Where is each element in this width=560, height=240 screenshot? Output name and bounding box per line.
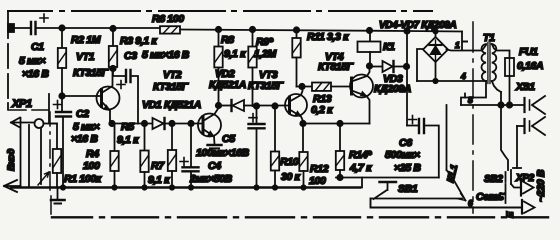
svg-text:5 мк×: 5 мк× [73, 121, 99, 133]
relay contact K1.1 [447, 170, 466, 201]
resistor third emitter row [168, 121, 176, 188]
winding 5 tap [461, 81, 486, 105]
resistor R6 [160, 26, 180, 33]
svg-text:9,1 к: 9,1 к [117, 134, 139, 146]
pin1 tick [463, 41, 468, 43]
node rail R11 [294, 27, 299, 32]
svg-text:КД521А: КД521А [209, 79, 246, 91]
transformer T1 [481, 43, 496, 84]
wire pin4 [417, 80, 486, 82]
diode VD2 [219, 100, 253, 111]
wire emitter row [110, 123, 203, 125]
svg-text:XS1: XS1 [515, 81, 535, 93]
svg-text:4,7 к: 4,7 к [349, 162, 372, 174]
node VT1 base [59, 93, 64, 98]
svg-text:100: 100 [309, 175, 326, 187]
primary top lead [492, 44, 510, 58]
bottom dash-dot border [52, 216, 548, 218]
svg-text:VT1: VT1 [76, 51, 95, 63]
svg-text:R8: R8 [221, 34, 234, 46]
wire top rail [36, 28, 463, 32]
ground under R1 [57, 188, 59, 200]
svg-text:R4: R4 [86, 148, 99, 160]
svg-text:R5: R5 [121, 121, 134, 133]
bridge rectifier VD4-VD7 [417, 29, 448, 81]
svg-text:100мк×16В: 100мк×16В [196, 147, 250, 159]
diode VD1 [153, 118, 165, 129]
svg-text:2мк×50В: 2мк×50В [189, 173, 233, 185]
svg-text:~220 В: ~220 В [535, 169, 547, 202]
svg-text:С4: С4 [208, 160, 221, 172]
svg-text:SB1: SB1 [398, 183, 418, 195]
svg-text:SB2: SB2 [484, 174, 503, 185]
svg-text:R12: R12 [310, 163, 329, 175]
svg-text:5 мк×: 5 мк× [19, 55, 45, 67]
socket XS1 upper [525, 96, 546, 114]
svg-text:9,1 к: 9,1 к [148, 174, 170, 186]
transistor VT2 [198, 106, 221, 145]
fuse FU1 [505, 58, 514, 105]
relay K1 [358, 28, 381, 66]
svg-text:9,1 к: 9,1 к [224, 48, 246, 60]
node rail R2 [59, 25, 64, 30]
diode VD3 [367, 61, 409, 72]
earth lead [505, 184, 507, 203]
node emitter R5 [109, 121, 114, 126]
svg-text:5: 5 [468, 95, 473, 105]
top border dash line [8, 10, 432, 12]
svg-text:С5: С5 [222, 133, 235, 145]
input shield vertical dash [50, 112, 51, 214]
svg-text:Вход: Вход [6, 148, 17, 171]
wire pin1 riser [447, 32, 487, 51]
svg-text:100: 100 [83, 160, 100, 172]
wire C6 return line [336, 177, 439, 179]
capacitor C3 [113, 69, 138, 124]
svg-text:R1 100к: R1 100к [64, 173, 102, 185]
input shield bottom dash [8, 109, 48, 111]
connector XP1 [4, 118, 57, 193]
switch SB2 [492, 81, 520, 188]
resistor R12 [299, 124, 307, 188]
transistor VT1 [97, 69, 120, 124]
svg-text:С3: С3 [124, 50, 137, 62]
svg-text:К1: К1 [383, 41, 395, 53]
svg-text:1: 1 [455, 40, 460, 50]
capacitor C6 [407, 116, 439, 178]
resistor R3 [109, 29, 117, 68]
svg-text:0,2 к: 0,2 к [311, 104, 333, 116]
right enclosure dash-dot wall [472, 22, 474, 213]
svg-text:R3 9,1 к: R3 9,1 к [120, 35, 157, 47]
resistor R13 [297, 83, 352, 92]
transistor VT4 [350, 66, 373, 124]
svg-text:FU1: FU1 [519, 46, 538, 58]
wire bottom rail [11, 186, 360, 188]
svg-text:Т1: Т1 [483, 32, 495, 44]
resistor R1 variable [38, 94, 61, 188]
capacitor C2 [54, 96, 72, 188]
resistor R8 [214, 30, 222, 106]
wire emitter VT3 VT4 row [303, 123, 370, 125]
svg-text:R10: R10 [280, 156, 299, 168]
node rail R3 [110, 26, 115, 31]
socket XS1 lower [513, 117, 545, 168]
rail junction dots [61, 185, 65, 189]
svg-text:×16 В: ×16 В [22, 68, 49, 80]
ground VT2 emitter [208, 144, 222, 146]
transistor VT3 [285, 87, 307, 124]
svg-text:~: ~ [499, 189, 505, 200]
wire x407 column [406, 31, 408, 126]
wire rail join [360, 178, 362, 188]
plug XP2 upper [521, 179, 534, 196]
resistor R14 [336, 121, 344, 180]
svg-text:КТ815Г: КТ815Г [318, 61, 354, 73]
capacitor C4 [180, 121, 199, 188]
svg-text:ХР1: ХР1 [11, 98, 32, 110]
capacitor C5 [249, 103, 265, 187]
node R3 C3 VT1 [110, 66, 115, 71]
svg-text:VT2: VT2 [163, 69, 182, 81]
svg-text:КТ315Г: КТ315Г [153, 81, 189, 93]
svg-text:5 мк×16 В: 5 мк×16 В [142, 49, 190, 61]
svg-text:R2 1М: R2 1М [71, 34, 101, 46]
wire SB1 row [371, 105, 462, 199]
svg-text:R14*: R14* [349, 149, 372, 161]
svg-text:Е: Е [505, 211, 516, 218]
node rail x407 [404, 28, 409, 33]
svg-text:×16 В: ×16 В [71, 133, 98, 145]
svg-text:R9*: R9* [256, 36, 274, 48]
button SB1 [374, 182, 397, 199]
svg-text:6: 6 [468, 198, 473, 208]
capacitor C1 [8, 14, 48, 34]
svg-text:КД209А: КД209А [374, 83, 411, 95]
svg-text:4: 4 [460, 71, 466, 81]
svg-text:С6: С6 [399, 137, 412, 149]
wire mains bus [371, 199, 522, 208]
svg-text:С2: С2 [76, 108, 89, 120]
node rail R8 [216, 27, 221, 32]
wire VT1 base [62, 95, 97, 97]
svg-text:30 к: 30 к [281, 171, 301, 183]
resistor R9 [248, 30, 256, 107]
svg-text:×25 В: ×25 В [394, 162, 421, 174]
resistor R11 [292, 30, 300, 87]
resistor R7 [140, 121, 148, 188]
node VD2 R8 [216, 103, 221, 108]
resistor R2 [58, 28, 66, 96]
svg-text:0,16А: 0,16А [517, 60, 543, 72]
svg-text:R11 3,3 к: R11 3,3 к [307, 31, 349, 43]
wire VT3 base row [253, 105, 290, 107]
svg-text:500мк×: 500мк× [385, 149, 420, 161]
resistor R5 [110, 125, 118, 188]
svg-text:КТ315Г: КТ315Г [248, 80, 284, 92]
wire output row [461, 104, 523, 106]
svg-text:VD1 КД521А: VD1 КД521А [142, 99, 201, 111]
svg-text:С1: С1 [31, 41, 44, 53]
svg-text:R6 100: R6 100 [152, 13, 184, 25]
svg-text:1,2М: 1,2М [254, 48, 277, 60]
plug XP2 lower [522, 200, 535, 214]
node rail R9 [250, 27, 255, 32]
svg-text:КТ315Г: КТ315Г [73, 67, 109, 79]
resistor R10 [271, 103, 279, 187]
svg-text:R7: R7 [151, 160, 165, 172]
svg-text:ХР2: ХР2 [515, 173, 535, 184]
svg-text:VD4-VD7 КД209А: VD4-VD7 КД209А [379, 20, 457, 31]
left border dashed [7, 11, 9, 109]
